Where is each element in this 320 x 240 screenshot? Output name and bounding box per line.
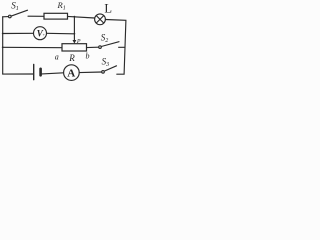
wire battery to ammeter	[42, 73, 64, 74]
lamp L	[95, 14, 106, 25]
wire lamp to top-right corner and right edge down	[105, 20, 126, 75]
svg-text:R1: R1	[57, 0, 66, 12]
wire left edge to rheostat terminal a	[3, 46, 62, 48]
switch S1	[9, 10, 28, 18]
wire left edge to voltmeter	[3, 32, 34, 34]
switch S2	[99, 42, 125, 49]
wire left vertical edge	[2, 17, 4, 74]
node junction branch with voltmeter row	[74, 33, 76, 35]
node voltmeter row left	[2, 33, 4, 35]
wire rheostat terminal b to switch S2	[87, 46, 99, 48]
resistor R1	[44, 13, 68, 19]
svg-text:a: a	[55, 53, 59, 62]
node rheostat row left	[2, 46, 4, 48]
ammeter A	[64, 65, 80, 81]
wire top-left corner to switch S1	[3, 16, 9, 18]
svg-text:A: A	[67, 67, 75, 79]
slider P arrow	[73, 40, 77, 44]
svg-text:L: L	[104, 1, 112, 15]
wire R1 to lamp	[68, 16, 95, 18]
battery cell	[34, 64, 41, 79]
svg-text:S1: S1	[11, 1, 18, 13]
svg-text:S3: S3	[102, 56, 110, 68]
switch S3	[102, 66, 117, 73]
node junction top branch	[74, 16, 76, 18]
wire vertical branch to slider	[73, 17, 75, 40]
wire ammeter to switch S3	[79, 71, 101, 74]
wire S1 contact to resistor R1	[28, 15, 44, 17]
rheostat R body	[62, 44, 87, 51]
wire voltmeter to branch junction	[47, 32, 74, 35]
svg-text:b: b	[86, 51, 90, 60]
svg-text:S2: S2	[101, 32, 109, 44]
voltmeter V	[34, 27, 47, 40]
wire bottom-left corner to battery	[3, 73, 33, 75]
svg-text:R: R	[68, 53, 75, 63]
